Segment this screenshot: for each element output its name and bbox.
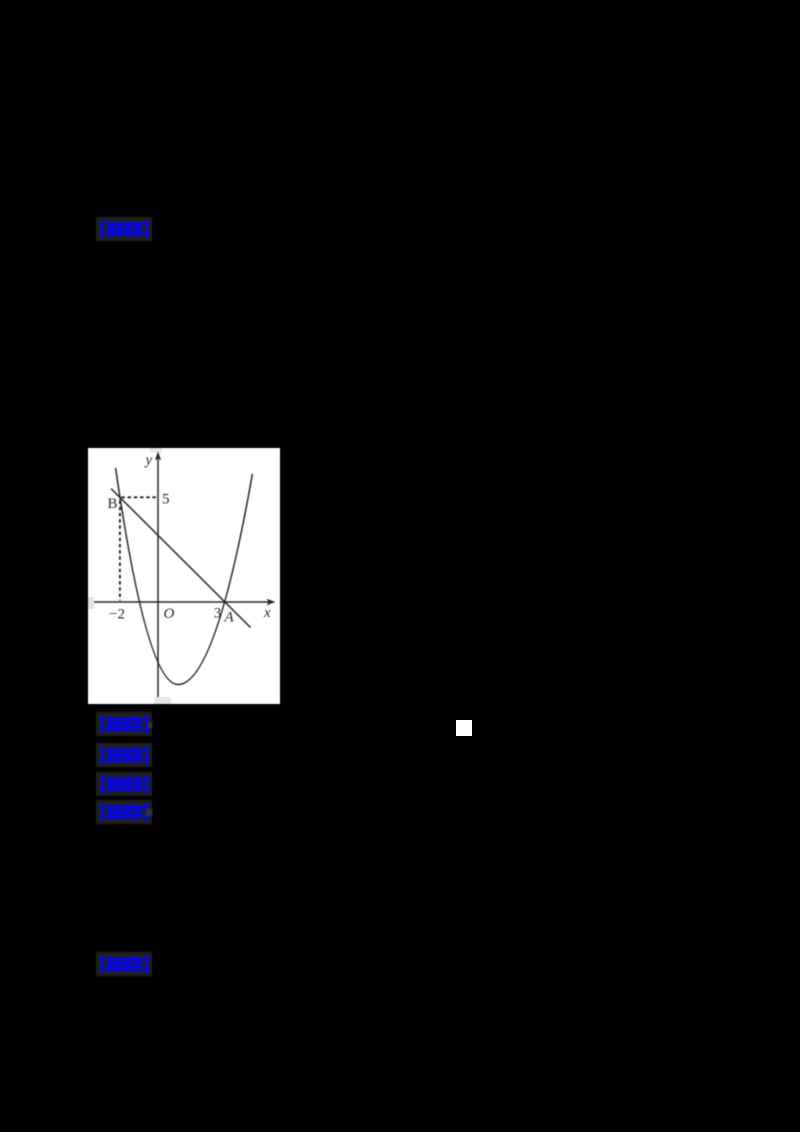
svg-text:B: B — [108, 496, 118, 512]
scan smudge top — [150, 448, 162, 453]
label tag L4 — [96, 772, 152, 796]
math figure: parabola and line graph — [88, 448, 280, 704]
svg-text:A: A — [224, 610, 235, 626]
faint mark after L5 — [146, 809, 152, 816]
faint mark after L2 — [148, 723, 153, 728]
x-axis — [94, 601, 269, 603]
svg-text:5: 5 — [162, 492, 170, 508]
svg-text:x: x — [263, 605, 271, 621]
line AB — [111, 489, 250, 628]
figure white background — [88, 448, 280, 704]
svg-text:3: 3 — [214, 606, 222, 622]
x-axis arrowhead — [267, 599, 276, 605]
label tag L5 — [96, 800, 152, 824]
label tag L2 — [96, 712, 152, 736]
svg-text:−2: −2 — [109, 607, 125, 623]
label tag L6 — [96, 952, 152, 976]
svg-text:y: y — [144, 453, 153, 469]
label tag L3 — [96, 743, 152, 767]
label tag L1 (blue bracket label on dark box) — [96, 217, 152, 241]
parabola — [116, 468, 253, 685]
scan smudge left — [88, 597, 94, 609]
dashed horizontal from B to y-axis at y=5 — [121, 496, 157, 498]
y-axis arrowhead — [155, 452, 161, 461]
scan smudge bottom — [154, 697, 171, 704]
dashed vertical from B down to x-axis — [119, 501, 121, 601]
y-axis — [157, 458, 159, 697]
svg-text:O: O — [164, 606, 175, 622]
figure text labels — [108, 453, 272, 626]
white formula placeholder square — [456, 720, 472, 736]
